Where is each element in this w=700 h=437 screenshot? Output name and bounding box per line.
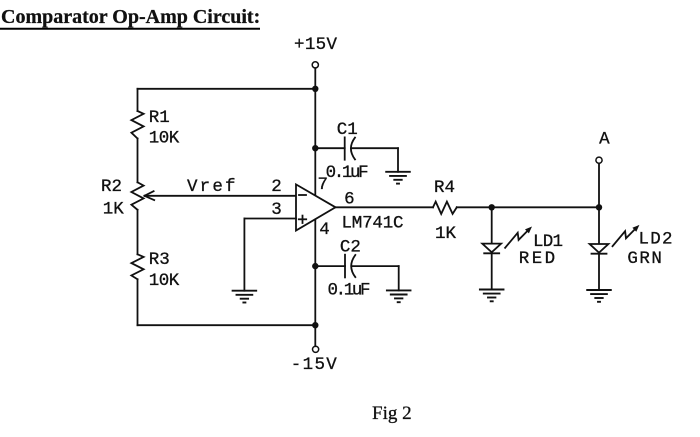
wire C1 right [351,147,398,149]
svg-text:10K: 10K [149,128,180,148]
svg-text:R3: R3 [149,250,170,270]
wire R1 top lead [137,89,139,111]
node A terminal circle [596,157,602,163]
ground (pin 3) [233,291,257,303]
junction at LD2 / node A [596,204,602,210]
R2 wiper arrow [145,195,296,197]
svg-text:LM741C: LM741C [342,213,404,233]
ground (C1) [386,172,410,184]
LED LD1 diode triangle [482,244,501,253]
svg-text:1K: 1K [103,199,125,219]
ground (LD1) [480,290,504,302]
svg-text:3: 3 [271,200,282,220]
wire C2 right [352,265,399,267]
wire LD1 anode lead [491,207,493,243]
capacitor C1 flat plate [344,137,346,159]
title underline [0,28,259,30]
resistor R1 [131,111,143,139]
svg-text:2: 2 [271,177,282,197]
wire pin 3 ground drop [243,219,245,291]
svg-text:4: 4 [319,220,330,240]
junction at C1 / power rail [312,145,318,151]
capacitor C1 curved plate [351,138,355,160]
svg-text:R4: R4 [434,178,455,198]
LED LD2 cathode bar [592,253,607,255]
svg-text:6: 6 [344,189,355,209]
wire LD2 cathode lead [598,254,600,290]
svg-text:C1: C1 [337,120,358,140]
wire LD1 cathode lead [491,253,493,289]
op-amp U1 LM741C triangle [296,184,336,230]
wire node A to output rail [598,163,600,207]
svg-text:+15V: +15V [294,35,337,55]
resistor R4 [433,202,457,214]
wire top horizontal (rail to R1) [138,88,316,90]
junction at +15V rail / top wire [312,86,318,92]
potentiometer R2 [131,182,143,210]
junction at LD1 [489,204,495,210]
wire C2 junction to bottom rail [314,266,316,325]
wire C2 ground drop [398,266,400,290]
svg-text:1K: 1K [435,224,457,244]
svg-text:C2: C2 [340,238,361,258]
svg-text:LD2: LD2 [639,230,673,250]
svg-text:R2: R2 [101,177,122,197]
LED LD1 light arrow [505,227,532,248]
capacitor C2 flat plate [344,255,346,278]
wire op-amp output to R4 [336,206,434,208]
wire pin 4 to C2 junction [314,220,316,266]
svg-text:0.1uF: 0.1uF [328,281,371,301]
LED LD2 diode triangle [590,244,609,253]
svg-text:GRN: GRN [627,249,662,269]
-15V terminal circle [313,346,319,352]
wire R4 to LD2 column [457,206,599,208]
capacitor C1 left wire [315,147,344,149]
svg-text:Comparator Op-Amp Circuit:: Comparator Op-Amp Circuit: [1,6,260,28]
wire C1 ground drop [397,148,399,172]
svg-text:RED: RED [519,249,556,269]
ground (C2) [387,290,411,302]
svg-text:0.1uF: 0.1uF [326,163,369,183]
svg-text:R1: R1 [149,108,170,128]
wire pin 3 horizontal [244,218,296,220]
svg-text:-15V: -15V [291,355,337,375]
op-amp minus input mark [299,194,306,196]
resistor R3 [131,254,143,279]
wire bottom junction to -15V terminal [314,325,316,346]
capacitor C2 left wire [315,265,345,267]
svg-text:10K: 10K [149,271,180,291]
LED LD1 cathode bar [484,252,499,254]
capacitor C2 curved plate [351,255,355,277]
+15V terminal circle [312,62,318,68]
wire +15V stem [314,68,316,89]
LED LD2 light arrow [613,225,640,246]
ground (LD2) [587,290,611,302]
svg-text:A: A [599,130,610,150]
wire LD2 anode lead [598,207,600,244]
wire power rail upper (junction to C1 junction) [314,89,316,148]
wire C1 junction to op-amp pin 7 [314,148,316,195]
junction at C2 / power rail [312,263,318,269]
op-amp plus input mark [299,218,306,220]
wire R1 to R2 [137,139,139,183]
wire R2 to R3 [137,210,139,255]
wire bottom horizontal [138,324,316,326]
wire R3 bottom lead [137,279,139,325]
svg-text:Fig 2: Fig 2 [372,403,412,424]
junction at bottom rail [312,322,318,328]
